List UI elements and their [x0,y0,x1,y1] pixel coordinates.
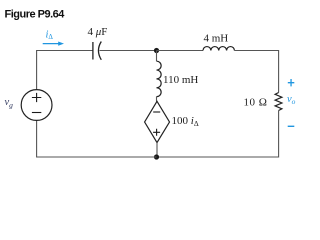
node dot bottom [154,154,159,159]
svg-text:vo: vo [287,94,296,106]
minus sign blue right [288,125,295,127]
wire: dependent source to bottom node [156,143,158,157]
wire: capacitor to top node [100,50,157,52]
capacitor C1 left plate [92,42,94,60]
wire: bottom node left to source [37,121,157,158]
svg-text:110 mH: 110 mH [163,74,198,86]
svg-text:10 Ω: 10 Ω [244,97,268,109]
svg-text:4 μF: 4 μF [88,26,108,38]
current arrow i-delta blue [43,43,59,45]
wire: coil to dependent source [156,97,158,102]
inductor L2 4mH horizontal coil [203,47,234,51]
wire: top-left from source up and right to capacitor [37,51,93,91]
voltage source Vg circle [21,90,52,121]
inductor L1 110mH vertical coil [157,61,162,96]
resistor R1 10 ohm zigzag [275,93,282,111]
plus sign inside diamond [153,129,160,136]
svg-text:vg: vg [5,97,14,110]
minus sign inside source [32,112,41,114]
plus sign blue right [288,79,295,86]
svg-text:Figure P9.64: Figure P9.64 [5,9,66,21]
minus sign inside diamond [153,111,160,113]
capacitor C1 right curved plate [98,42,101,60]
svg-text:iΔ: iΔ [46,30,54,42]
plus sign inside source [32,93,41,102]
wire: 4mH inductor to top-right corner and down to resistor [234,51,278,93]
dependent source U1 diamond 100 i-delta [145,101,170,142]
wire: top node to 4mH inductor [157,50,204,52]
wire: 110mH branch from top node down to coil [156,51,158,62]
svg-text:100 iΔ: 100 iΔ [172,115,199,128]
wire: resistor down to bottom-right corner and left [157,111,279,158]
svg-text:4 mH: 4 mH [204,33,229,45]
node dot top [154,48,159,53]
